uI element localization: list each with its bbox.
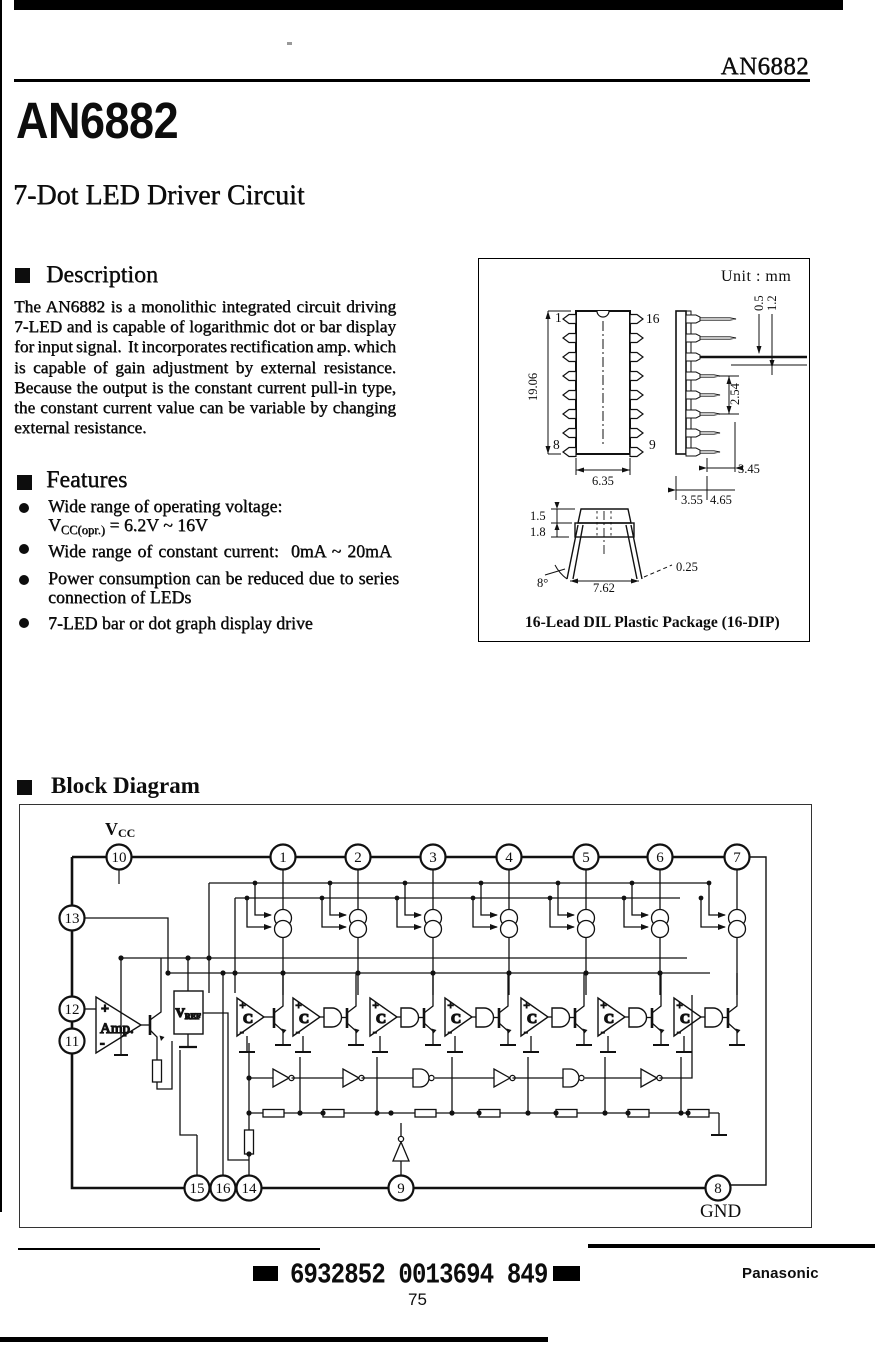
svg-text:14: 14 bbox=[242, 1181, 258, 1197]
svg-text:16-Lead DIL Plastic Package (1: 16-Lead DIL Plastic Package (16-DIP) bbox=[525, 614, 780, 631]
svg-text:+: + bbox=[240, 1000, 246, 1012]
svg-text:7.62: 7.62 bbox=[593, 581, 615, 595]
svg-text:7: 7 bbox=[733, 850, 741, 866]
svg-text:-: - bbox=[524, 1026, 528, 1038]
svg-text:Amp.: Amp. bbox=[100, 1021, 134, 1037]
svg-text:0.5: 0.5 bbox=[752, 295, 766, 311]
svg-text:C: C bbox=[527, 1012, 537, 1027]
svg-text:1.5: 1.5 bbox=[530, 509, 546, 523]
svg-text:3: 3 bbox=[429, 850, 437, 866]
svg-text:-: - bbox=[100, 1036, 105, 1051]
svg-text:8: 8 bbox=[553, 437, 560, 452]
svg-text:12: 12 bbox=[65, 1002, 80, 1018]
svg-text:8: 8 bbox=[714, 1181, 722, 1197]
svg-text:6.35: 6.35 bbox=[592, 474, 614, 488]
svg-text:15: 15 bbox=[190, 1181, 205, 1197]
svg-text:10: 10 bbox=[112, 850, 127, 866]
svg-text:Unit : mm: Unit : mm bbox=[721, 268, 791, 285]
svg-text:2.54: 2.54 bbox=[728, 382, 742, 405]
svg-text:+: + bbox=[448, 1000, 454, 1012]
svg-text:+: + bbox=[601, 1000, 607, 1012]
svg-text:0.25: 0.25 bbox=[676, 560, 698, 574]
svg-text:+: + bbox=[677, 1000, 683, 1012]
svg-text:6: 6 bbox=[656, 850, 664, 866]
svg-text:1: 1 bbox=[555, 310, 562, 325]
svg-text:C: C bbox=[680, 1012, 690, 1027]
svg-text:GND: GND bbox=[700, 1201, 741, 1222]
svg-text:4.65: 4.65 bbox=[710, 493, 732, 507]
svg-text:5: 5 bbox=[582, 850, 590, 866]
svg-text:-: - bbox=[601, 1026, 605, 1038]
svg-text:9: 9 bbox=[397, 1181, 405, 1197]
svg-text:+: + bbox=[296, 1000, 302, 1012]
svg-text:+: + bbox=[373, 1000, 379, 1012]
svg-text:2: 2 bbox=[354, 850, 362, 866]
svg-text:16: 16 bbox=[216, 1181, 232, 1197]
svg-text:3.45: 3.45 bbox=[738, 462, 760, 476]
svg-text:C: C bbox=[243, 1012, 253, 1027]
svg-text:1: 1 bbox=[279, 850, 287, 866]
svg-text:C: C bbox=[451, 1012, 461, 1027]
svg-text:3.55: 3.55 bbox=[681, 493, 703, 507]
svg-text:+: + bbox=[524, 1000, 530, 1012]
svg-text:C: C bbox=[604, 1012, 614, 1027]
svg-text:4: 4 bbox=[505, 850, 513, 866]
svg-text:1.8: 1.8 bbox=[530, 525, 546, 539]
svg-text:C: C bbox=[376, 1012, 386, 1027]
svg-text:8°: 8° bbox=[537, 576, 548, 590]
svg-text:C: C bbox=[299, 1012, 309, 1027]
svg-text:-: - bbox=[677, 1026, 681, 1038]
svg-text:1.2: 1.2 bbox=[765, 295, 779, 311]
svg-text:-: - bbox=[448, 1026, 452, 1038]
svg-text:+: + bbox=[101, 1002, 109, 1017]
svg-text:VCC: VCC bbox=[105, 819, 135, 840]
svg-text:16: 16 bbox=[646, 311, 660, 326]
svg-text:11: 11 bbox=[65, 1034, 79, 1050]
svg-text:19.06: 19.06 bbox=[526, 373, 540, 401]
svg-text:-: - bbox=[373, 1026, 377, 1038]
svg-text:-: - bbox=[296, 1026, 300, 1038]
svg-text:13: 13 bbox=[65, 911, 80, 927]
svg-text:-: - bbox=[240, 1026, 244, 1038]
svg-text:9: 9 bbox=[649, 437, 656, 452]
